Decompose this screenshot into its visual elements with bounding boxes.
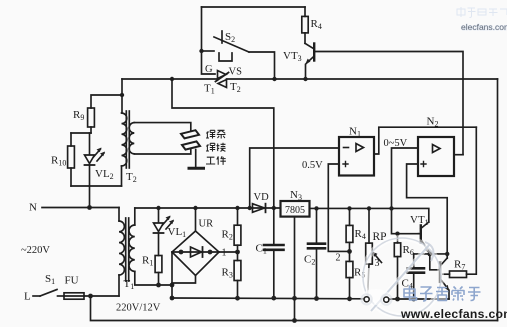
- wire R10/VL2 top tie bar: [71, 132, 91, 134]
- fuse FU body: [64, 293, 84, 299]
- svg-text:VS: VS: [229, 67, 243, 78]
- op-amp N1 body: [339, 137, 374, 176]
- wire R5 bottom lead to ground rail: [349, 278, 351, 299]
- transformer T2 secondary winding: [129, 123, 134, 154]
- svg-text:VL1: VL1: [168, 226, 187, 239]
- wire L line entry: [33, 295, 40, 297]
- wire main triac line right segment: [227, 78, 498, 80]
- svg-text:R3: R3: [222, 267, 233, 280]
- wire DC rail left part (secondary top to 7805 input): [135, 207, 281, 209]
- wire main triac line left segment: [122, 78, 218, 80]
- svg-text:R6: R6: [403, 244, 414, 257]
- svg-text:T2: T2: [230, 81, 241, 94]
- capacitor C1 top lead: [273, 208, 275, 245]
- wire T1 secondary top lead to DC rail: [134, 208, 136, 225]
- diode VD cathode bar: [265, 204, 267, 213]
- wire VT2 emitter to ground rail: [448, 291, 450, 300]
- svg-text:UR: UR: [199, 219, 214, 230]
- wire R10 bottom lead: [70, 168, 72, 186]
- svg-text:~220V: ~220V: [21, 245, 50, 256]
- svg-text:R4: R4: [311, 18, 322, 31]
- wire N1 output up and across to R7 feedback vertical: [374, 127, 476, 154]
- switch S1 blade: [40, 290, 57, 297]
- svg-text:R10: R10: [51, 155, 66, 168]
- transistor VT2 base bar: [439, 263, 442, 282]
- wire RP bottom lead to terminal circle: [368, 264, 370, 297]
- wire R7 right lead up to N1 output line: [467, 127, 477, 274]
- wire RP top lead: [368, 208, 370, 243]
- wire R2 to R3: [237, 245, 239, 260]
- node R2/R3 midpoint junction: [235, 250, 240, 255]
- wire N line corner down to T1 primary: [118, 208, 120, 222]
- wire R9 top lead: [91, 95, 122, 108]
- LED VL1 cathode bar: [154, 232, 164, 234]
- capacitor C1 bottom lead: [273, 250, 275, 298]
- transistor VT2 collector diagonal: [440, 258, 447, 266]
- svg-text:G: G: [205, 64, 213, 75]
- svg-text:FU: FU: [65, 275, 79, 287]
- svg-text:220V/12V: 220V/12V: [116, 303, 161, 314]
- svg-text:L: L: [24, 291, 31, 303]
- transformer T1 core: [125, 218, 127, 281]
- node C4 ground junction: [411, 297, 416, 302]
- watermark small top right: [457, 7, 507, 32]
- svg-text:7805: 7805: [285, 205, 305, 216]
- wire R1 bottom lead to secondary bottom line: [158, 273, 160, 286]
- resistor R1 body: [155, 256, 162, 273]
- node R2 branch on DC rail: [235, 206, 239, 210]
- svg-text:C2: C2: [304, 254, 315, 267]
- resistor R2 body: [234, 225, 241, 245]
- node C2 branch on DC rail: [314, 206, 318, 210]
- wire VT2 base lead from emitter node: [430, 254, 440, 270]
- wire bridge top vertex drop: [195, 208, 197, 231]
- node C1/welding feed on DC rail: [272, 206, 276, 210]
- wire welding feed line from main line to rectified node: [172, 79, 274, 208]
- node VT1 emitter junction: [427, 252, 432, 257]
- wire T1 secondary bottom lead: [135, 271, 172, 285]
- transistor VT3 base bar: [313, 44, 315, 61]
- op-amp N1 triangle: [356, 144, 364, 152]
- wire R10 top lead: [70, 133, 72, 146]
- capacitor C1 plates: [264, 244, 284, 247]
- node VT3 emitter to main line junction: [303, 77, 307, 81]
- rectifier UR internal diode triangle: [191, 247, 202, 257]
- capacitor C4 plates: [408, 267, 425, 270]
- svg-text:R1: R1: [142, 255, 153, 268]
- fuse FU through line: [64, 295, 84, 297]
- node C1 ground junction: [271, 296, 276, 301]
- resistor R4 body (top right): [302, 16, 308, 33]
- watermark chinese characters bottom right: [404, 286, 481, 302]
- node S2 to main line junction: [272, 77, 276, 81]
- resistor R9 body: [88, 108, 95, 127]
- LED VL2 diode triangle: [85, 155, 95, 164]
- terminal circle right repaint: [384, 297, 389, 302]
- resistor R5 body: [346, 261, 353, 277]
- terminal circle left on ground rail: [364, 297, 369, 302]
- LED VL2 cathode bar: [85, 164, 95, 166]
- wire 7805 ground pin down through ground rail to bottom return: [294, 217, 296, 321]
- svg-text:VT3: VT3: [283, 50, 302, 63]
- resistor R10 body: [68, 146, 75, 168]
- resistor R3 body: [234, 261, 241, 281]
- node VL1 branch on DC rail: [156, 206, 160, 210]
- wire N2 output stub to VT3 base vertical: [454, 154, 463, 156]
- node S2 branch junction: [199, 49, 203, 53]
- wire ground rail left part: [172, 297, 364, 300]
- transistor VT3 emitter diagonal with arrow: [306, 56, 314, 64]
- text 焊接 (welding) drawn glyphs: [206, 143, 215, 151]
- node bridge top on DC rail: [193, 206, 197, 210]
- svg-text:R7: R7: [454, 259, 465, 272]
- wire left vertical from top rail down to triac gate: [202, 7, 216, 74]
- svg-text:N2: N2: [427, 116, 439, 129]
- LED VL1 light arrows: [163, 217, 170, 225]
- wire S2 left lead: [202, 50, 215, 52]
- wire VT3 emitter down to main line: [305, 65, 307, 80]
- wire VT1 base lead: [419, 233, 421, 235]
- svg-text:1: 1: [222, 248, 227, 259]
- transformer T1 primary winding: [119, 221, 124, 275]
- wire main line left corner down to T2 primary: [121, 79, 123, 113]
- svg-text:elecfans.com: elecfans.com: [461, 22, 507, 32]
- wire top rail from S2 branch to R4 top: [202, 6, 306, 8]
- wire R7 left lead: [443, 273, 450, 275]
- LED VL2 light arrows: [94, 149, 101, 157]
- wire N2 non-inverting input to VT2 collector feedback: [407, 164, 448, 258]
- node RP branch on DC rail: [367, 206, 371, 210]
- svg-text:N: N: [29, 202, 37, 214]
- wire emitter node tie bar (C4 to feedback vertical): [414, 253, 448, 255]
- capacitor C2 top lead: [316, 208, 318, 243]
- node UR internal left: [179, 250, 184, 255]
- wire VT3 base line to N2 output vertical: [314, 52, 463, 155]
- wire 0~5V line: N2 inverting input to rail and VT1 base: [392, 148, 419, 234]
- wire S1 to fuse: [58, 295, 65, 297]
- node 7805 ground at ground rail: [292, 296, 297, 301]
- wire T2 primary bottom lead: [121, 166, 123, 186]
- wire R3 bottom lead to ground rail: [237, 281, 239, 299]
- op-amp N2 body: [418, 137, 454, 176]
- diode VD anode lead on rail is part of rail; VD triangle: [253, 204, 265, 213]
- svg-text:N1: N1: [349, 126, 361, 139]
- wire S2 right lead to main line: [249, 52, 275, 79]
- resistor R4 body (divider): [346, 225, 353, 242]
- switch S2 fixed contact tick: [221, 31, 223, 43]
- terminal circle left repaint: [364, 297, 369, 302]
- transistor VT1 collector diagonal: [421, 222, 429, 229]
- op-amp N1 inverting mark: [344, 147, 349, 149]
- wire VL1 to R1: [158, 233, 160, 256]
- wire welding loop top: [134, 123, 191, 131]
- wire R4 top lead: [349, 208, 351, 225]
- wire R2/R3 midpoint to bridge right vertex (terminal 1): [219, 251, 238, 253]
- wire ground rail right part: [389, 298, 449, 300]
- node L line branch junction: [88, 294, 93, 299]
- svg-text:T2: T2: [126, 171, 137, 184]
- potentiometer RP wiper arrow (pin 3): [374, 253, 382, 263]
- node UR internal right: [208, 250, 213, 255]
- node R3 ground junction: [235, 296, 240, 301]
- wire right-most vertical from main line down to bottom return line: [497, 79, 499, 321]
- wire R2 top lead: [237, 208, 239, 225]
- node C2 ground junction: [314, 296, 319, 301]
- transformer T2 core: [125, 111, 127, 168]
- wire R4 to R5: [349, 242, 351, 261]
- wire DC rail right part (7805 output to VT1 collector corner): [310, 208, 429, 222]
- op-amp N2 plus mark: [421, 162, 426, 167]
- node 0.5V sense tap on DC rail: [248, 206, 252, 210]
- svg-text:VD: VD: [254, 192, 270, 203]
- svg-text:S2: S2: [225, 31, 235, 44]
- triac VS center bar: [216, 73, 229, 82]
- node ground rail left end junction: [170, 296, 175, 301]
- node N line junction: [87, 205, 92, 210]
- wire welding loop bottom: [134, 149, 191, 154]
- capacitor C4 top lead: [413, 254, 415, 268]
- svg-text:VL2: VL2: [95, 168, 114, 181]
- wire bridge bottom vertex bend to left vertical: [172, 276, 196, 284]
- wire bridge left vertex down to ground rail: [171, 252, 173, 298]
- svg-text:0.5V: 0.5V: [302, 160, 323, 171]
- text 焊条 (welding electrode) drawn glyphs: [206, 130, 215, 138]
- wire R4 top lead: [304, 7, 306, 16]
- wire R4 bottom lead to VT3 collector: [304, 33, 306, 43]
- wire 0.5V sense line to N1 inverting input: [250, 148, 339, 208]
- node secondary bottom to bridge AC junction: [170, 283, 175, 288]
- transformer T1 secondary winding: [129, 225, 135, 271]
- wire VL2 top lead: [89, 133, 91, 154]
- switch S2 blade: [214, 37, 249, 52]
- rectifier UR internal diode bar: [202, 247, 204, 257]
- node feedback join: [445, 252, 449, 256]
- switch S2 operator bracket: [219, 53, 232, 61]
- transistor VT1 base bar: [420, 225, 422, 242]
- transistor VT3 collector diagonal: [305, 43, 314, 49]
- svg-text:www.elecfans.com: www.elecfans.com: [400, 307, 507, 321]
- transistor VT2 emitter diagonal with arrow: [440, 279, 449, 290]
- wire T1 primary bottom lead to L line: [118, 275, 120, 296]
- svg-text:N3: N3: [290, 189, 302, 202]
- triac VS upper triangle: [218, 71, 227, 79]
- svg-text:R9: R9: [73, 109, 84, 122]
- wire bottom return line from L branch to right vertical: [91, 296, 498, 321]
- svg-text:R4: R4: [355, 228, 366, 241]
- rectifier UR internal link: [172, 251, 219, 253]
- workpiece support stem: [195, 150, 197, 168]
- op-amp N2 triangle: [433, 145, 441, 153]
- svg-text:T1: T1: [124, 278, 135, 291]
- transformer T2 primary winding: [122, 113, 127, 166]
- node bottom return line junction with 7805 ground drop: [292, 318, 297, 323]
- capacitor C4 bottom lead: [413, 273, 415, 299]
- wire VL1 top lead: [158, 208, 160, 222]
- wire R10/VL2/T2-primary bottom tie bar: [71, 185, 122, 187]
- svg-text:0~5V: 0~5V: [384, 138, 408, 149]
- svg-text:S1: S1: [45, 273, 55, 286]
- potentiometer RP body: [366, 243, 373, 264]
- transistor VT1 emitter diagonal with arrow: [421, 240, 430, 253]
- terminal circle right on ground rail: [384, 297, 389, 302]
- wire R6 top lead: [397, 234, 399, 243]
- watermark stylus ring: [361, 238, 441, 316]
- welding workpiece plate (bottom): [182, 141, 200, 149]
- regulator N3 7805 body: [281, 201, 310, 217]
- node 0~5V drop on DC rail: [389, 206, 393, 210]
- node R5 ground junction: [347, 296, 352, 301]
- wire N1 non-inverting input drop to divider midpoint: [328, 164, 349, 251]
- wire VL2 bottom lead: [89, 165, 91, 186]
- svg-text:3: 3: [375, 258, 380, 269]
- triac VS lower triangle: [218, 80, 227, 88]
- text 工件 (workpiece) drawn glyphs: [206, 157, 215, 164]
- node welding branch junction on main line: [170, 77, 174, 81]
- resistor R7 body (horizontal): [450, 271, 467, 278]
- node R1 bottom junction: [156, 283, 161, 288]
- wire R9 bottom to R10/VL2 split: [90, 127, 92, 133]
- workpiece support bar: [189, 167, 204, 170]
- node R6 ground junction: [395, 297, 400, 302]
- wire R6 bottom lead to ground rail: [397, 257, 399, 299]
- op-amp N1 plus mark: [343, 162, 348, 167]
- node R9 branch junction: [120, 93, 124, 97]
- svg-text:VT1: VT1: [410, 214, 429, 227]
- node R4/R5 midpoint junction (pin 2 net): [347, 249, 352, 254]
- welding electrode plate (top): [181, 130, 199, 138]
- svg-text:T1: T1: [204, 83, 215, 96]
- wire fuse to T1 primary bottom: [84, 295, 119, 297]
- node R6 tap on VT1 base line: [395, 232, 399, 236]
- rectifier UR diamond outline: [172, 231, 219, 276]
- resistor R6 body: [394, 243, 400, 257]
- LED VL1 diode triangle: [154, 223, 164, 232]
- wire drop from tie bar to N line: [89, 186, 91, 208]
- node R4 branch on DC rail: [347, 206, 351, 210]
- svg-text:R2: R2: [222, 229, 233, 242]
- wire N line: [42, 207, 119, 209]
- capacitor C2 plates: [308, 242, 325, 245]
- svg-text:2: 2: [336, 253, 341, 264]
- capacitor C2 bottom lead: [316, 248, 318, 298]
